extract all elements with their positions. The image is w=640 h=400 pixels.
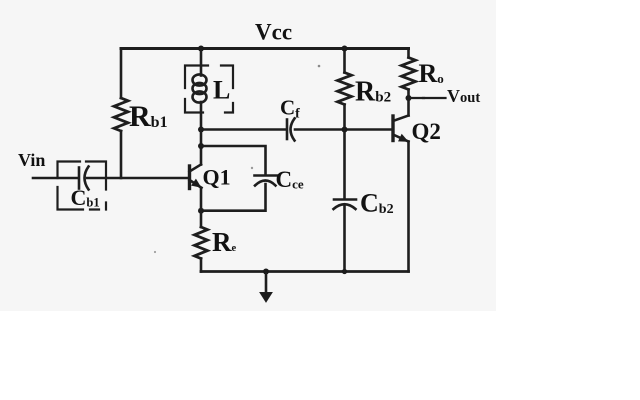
svg-text:Q2: Q2 [412, 119, 441, 144]
svg-text:Vcc: Vcc [255, 20, 292, 45]
wire: rail down to Rb2 [343, 49, 346, 73]
label Re [212, 227, 237, 257]
node: emitter junction of Q1 [198, 208, 204, 214]
scan speck near Cf [318, 65, 321, 68]
resistor Rb2 [338, 73, 352, 105]
label Cce [276, 167, 304, 192]
wire: Ro to Vout node [407, 90, 410, 99]
svg-text:Q1: Q1 [203, 165, 231, 190]
capacitor Cb1 [79, 167, 89, 190]
wire: base line down to Cb2 [343, 130, 346, 200]
wire: collector column down to Q1 [200, 130, 203, 165]
label Cf [280, 96, 300, 122]
wire: Cf to Q2 base [295, 128, 392, 131]
wire: Cce bottom branch [201, 184, 266, 211]
wire: rail corner down to Ro [407, 49, 410, 58]
resistor Re [195, 227, 208, 259]
label Q2 [412, 119, 441, 144]
wire: Vout node down to Q2 collector [407, 98, 410, 116]
capacitor Cce [255, 176, 278, 186]
dashed box around Cb1 [58, 162, 107, 210]
wire: Rb1 to input line [120, 131, 123, 178]
wire: Cb1 to Q1 base [87, 177, 188, 180]
wire: collector line to Cf [201, 128, 287, 131]
label L [213, 76, 230, 105]
wire: Q2 emitter down to bottom rail [407, 142, 410, 272]
Vcc label [255, 20, 292, 45]
svg-text:Vin: Vin [18, 150, 45, 170]
node: ground junction [263, 269, 269, 275]
wire: Vcc top rail [121, 47, 409, 50]
transistor Q2 [393, 116, 409, 142]
label Cb2 [360, 189, 394, 218]
capacitor Cb2 [334, 200, 357, 210]
label Rb1 [129, 100, 168, 133]
dashed box around L [185, 66, 233, 113]
label Q1 [203, 165, 231, 190]
resistor Ro [402, 58, 416, 90]
wire: Vin to Cb1 [33, 177, 79, 180]
wire: emitter down to Re [200, 188, 203, 227]
ground [260, 272, 272, 303]
transistor Q1 [190, 165, 202, 189]
node: Cb2 / bottom rail junction [342, 269, 347, 274]
wire: Cb2 to bottom rail [343, 207, 346, 272]
svg-text:L: L [213, 76, 230, 105]
wire: left branch from rail down to Rb1 [120, 49, 123, 99]
Vout label [447, 86, 480, 106]
wire: Rb2 to base line [343, 105, 346, 130]
node: Cf line / Rb2-Cb2 junction [342, 127, 348, 133]
wire: Vout stub [409, 97, 446, 99]
inductor L [193, 74, 207, 102]
label Ro [419, 59, 444, 88]
wire: L to collector node [200, 102, 203, 130]
node: top rail / L branch junction [198, 46, 204, 52]
Vin label [18, 150, 45, 170]
node: Vout [406, 95, 412, 101]
node: top rail / Rb2 branch junction [342, 46, 348, 52]
capacitor Cf [287, 119, 295, 141]
resistor Rb1 [114, 98, 128, 131]
node: collector / Cce junction [198, 143, 204, 149]
label Cb1 [71, 185, 100, 210]
node: Q1 collector / Cf line [198, 127, 204, 133]
label Rb2 [355, 77, 391, 108]
scan speck near Cce [251, 167, 253, 169]
wire: Re to bottom rail [200, 259, 203, 272]
wire: bottom ground rail [201, 270, 409, 273]
wire: L branch from rail [200, 49, 203, 76]
scan speck below Re [154, 251, 156, 253]
wire: Cce top branch [201, 146, 266, 175]
